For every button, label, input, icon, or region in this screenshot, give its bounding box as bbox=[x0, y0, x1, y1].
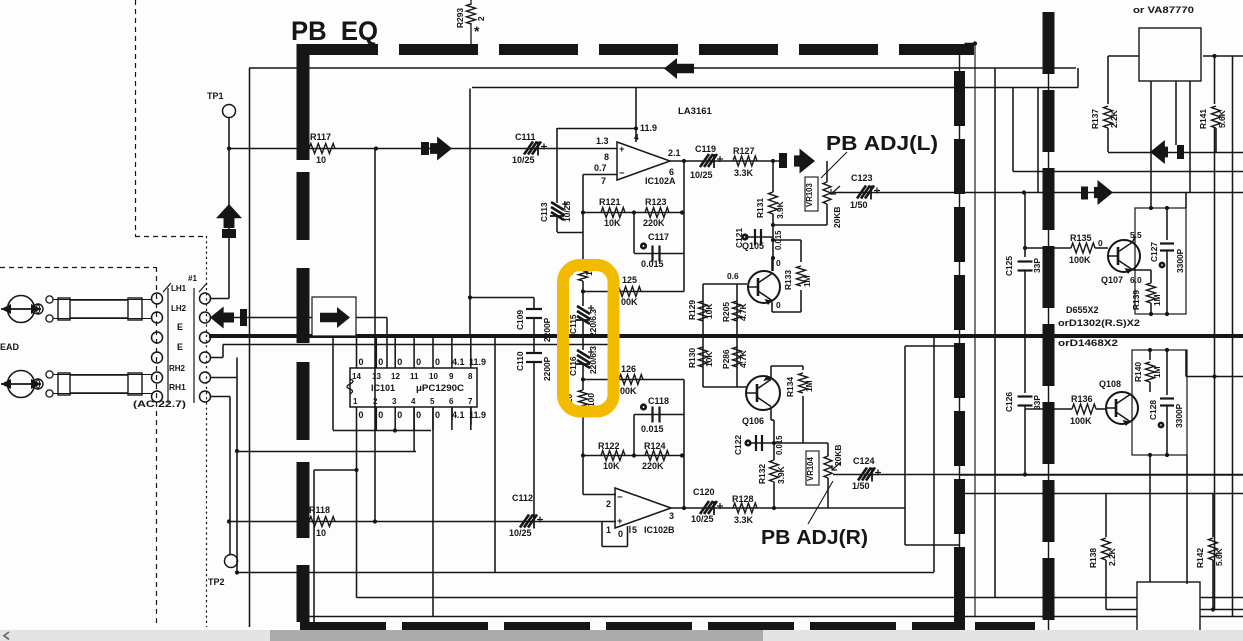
svg-text:LH2: LH2 bbox=[171, 304, 187, 313]
svg-text:R127: R127 bbox=[733, 146, 755, 156]
svg-text:Q107: Q107 bbox=[1101, 275, 1123, 285]
svg-text:0.015: 0.015 bbox=[775, 435, 784, 455]
svg-text:220K: 220K bbox=[643, 218, 665, 228]
svg-text:0: 0 bbox=[776, 300, 781, 310]
wire x634 up C118 bbox=[633, 415, 635, 456]
IC102B minus wire bbox=[583, 494, 616, 496]
svg-text:10: 10 bbox=[316, 528, 326, 538]
svg-text:3: 3 bbox=[669, 511, 674, 521]
resistor R117 bbox=[309, 144, 335, 154]
node dot R117 line bbox=[374, 146, 378, 150]
svg-text:R293: R293 bbox=[455, 8, 465, 28]
svg-text:C111: C111 bbox=[515, 132, 536, 142]
op-amp U IC102A bbox=[617, 142, 670, 180]
wire output node B x684 bbox=[683, 380, 685, 509]
transistor Q106 bbox=[746, 376, 780, 410]
svg-text:1: 1 bbox=[353, 397, 358, 406]
wire x333 bbox=[332, 338, 334, 430]
wire LH2 row y317 bbox=[211, 317, 387, 319]
capacitor C110 bbox=[533, 336, 535, 352]
capacitor C120 bbox=[700, 501, 717, 514]
IC box bottom bbox=[1137, 582, 1200, 641]
svg-text:11.9: 11.9 bbox=[469, 357, 486, 367]
wire Q106 collector down bbox=[770, 407, 772, 420]
svg-text:6: 6 bbox=[449, 397, 454, 406]
svg-text:R133: R133 bbox=[783, 270, 793, 290]
svg-text:RH1: RH1 bbox=[169, 382, 186, 392]
svg-text:33P: 33P bbox=[1032, 258, 1042, 273]
wire left boundary x249 bbox=[249, 68, 251, 627]
tape head L bbox=[8, 296, 35, 323]
svg-text:PB EQ: PB EQ bbox=[291, 16, 378, 46]
wire Q105 emitter bbox=[771, 302, 773, 312]
svg-text:TP1: TP1 bbox=[207, 91, 224, 101]
highlight ring bbox=[563, 265, 614, 412]
wire Q108 down bbox=[1149, 455, 1151, 582]
svg-text:C127: C127 bbox=[1149, 242, 1159, 262]
svg-text:4.1: 4.1 bbox=[452, 357, 465, 367]
svg-text:100K: 100K bbox=[1069, 255, 1091, 265]
svg-text:R118: R118 bbox=[309, 505, 330, 515]
svg-text:VR104: VR104 bbox=[806, 456, 815, 481]
svg-text:R121: R121 bbox=[599, 197, 621, 207]
capacitor C111 bbox=[524, 142, 541, 155]
svg-text:C109: C109 bbox=[515, 310, 525, 330]
svg-text:1M: 1M bbox=[1152, 294, 1162, 306]
svg-text:1.3: 1.3 bbox=[596, 136, 609, 146]
resistor R126 bbox=[619, 375, 643, 385]
svg-text:R142: R142 bbox=[1195, 548, 1205, 568]
svg-text:R135: R135 bbox=[1070, 233, 1092, 243]
svg-text:R122: R122 bbox=[598, 441, 620, 451]
svg-text:220/6.3: 220/6.3 bbox=[588, 346, 598, 374]
svg-text:C117: C117 bbox=[648, 232, 669, 242]
svg-text:00K: 00K bbox=[621, 297, 638, 307]
capacitor C128 bbox=[1166, 350, 1168, 395]
Q108 cell frame bbox=[1132, 350, 1187, 455]
svg-text:C123: C123 bbox=[851, 173, 873, 183]
capacitor C123 bbox=[857, 186, 874, 199]
svg-text:0.015: 0.015 bbox=[641, 259, 664, 269]
op-amp U IC102B bbox=[615, 488, 671, 528]
main signal bus bbox=[209, 334, 1243, 338]
svg-text:4: 4 bbox=[411, 397, 416, 406]
capacitor C109 bbox=[526, 308, 542, 310]
wire E2 row bbox=[211, 357, 223, 359]
capacitor C119 bbox=[700, 154, 717, 167]
wire return line y68 bbox=[249, 67, 1076, 69]
dashed line x156 bbox=[156, 267, 158, 627]
wire y475 right bbox=[960, 474, 1243, 476]
capacitor C116 bbox=[582, 336, 584, 350]
pot VR104 bbox=[806, 451, 819, 485]
dashed line y267 bbox=[0, 267, 156, 269]
svg-text:or VA87770: or VA87770 bbox=[1133, 5, 1194, 15]
VR104 callout bbox=[808, 481, 833, 524]
svg-text:0: 0 bbox=[435, 410, 440, 420]
wire inner bottom y572 bbox=[237, 572, 934, 574]
svg-text:2.2K: 2.2K bbox=[1109, 110, 1119, 128]
svg-text:PB ADJ(L): PB ADJ(L) bbox=[826, 133, 938, 155]
svg-text:0: 0 bbox=[776, 258, 781, 268]
svg-text:3300P: 3300P bbox=[1174, 403, 1184, 428]
svg-text:0: 0 bbox=[378, 410, 383, 420]
svg-text:#1: #1 bbox=[188, 274, 197, 283]
connector housing bbox=[152, 293, 163, 304]
resistor R137 bbox=[1104, 106, 1113, 128]
wire rail y88 bbox=[472, 87, 1078, 89]
svg-text:5: 5 bbox=[430, 397, 435, 406]
svg-text:00K: 00K bbox=[620, 386, 637, 396]
shield pass box bbox=[312, 297, 356, 336]
svg-text:R139: R139 bbox=[1131, 290, 1141, 310]
svg-text:3.3K: 3.3K bbox=[734, 515, 754, 525]
svg-text:orD1302(R.S)X2: orD1302(R.S)X2 bbox=[1058, 318, 1140, 328]
svg-text:1/50: 1/50 bbox=[852, 481, 870, 491]
wire bus lower y344 bbox=[223, 344, 612, 346]
svg-text:R132: R132 bbox=[757, 464, 767, 484]
svg-text:220/6.3: 220/6.3 bbox=[588, 309, 598, 337]
resistor R136 bbox=[1072, 404, 1096, 414]
svg-text:33P: 33P bbox=[1032, 395, 1042, 410]
wire x314 bbox=[313, 470, 315, 627]
PB EQ shield bottom dashed bar bbox=[300, 622, 965, 632]
svg-text:13: 13 bbox=[372, 372, 381, 381]
svg-text:3.9K: 3.9K bbox=[775, 201, 785, 219]
svg-text:1M: 1M bbox=[804, 380, 814, 392]
wire PB ADJ L row y192 bbox=[832, 192, 1243, 194]
svg-text:(AC 22.7): (AC 22.7) bbox=[133, 399, 186, 409]
svg-text:+: + bbox=[617, 516, 623, 527]
svg-text:220K: 220K bbox=[642, 461, 664, 471]
svg-text:*: * bbox=[474, 23, 480, 39]
resistor R138 bbox=[1105, 494, 1107, 538]
svg-text:7: 7 bbox=[468, 397, 473, 406]
svg-text:2: 2 bbox=[476, 16, 486, 21]
resistor R127 bbox=[733, 156, 757, 166]
IC box VA87770 bbox=[1139, 28, 1201, 81]
svg-text:10/25: 10/25 bbox=[509, 528, 532, 538]
svg-text:C122: C122 bbox=[733, 435, 743, 455]
svg-text:8: 8 bbox=[468, 372, 473, 381]
wire R126 row y379 bbox=[583, 379, 684, 381]
wire y152 row bbox=[1108, 152, 1243, 154]
svg-text:10/25: 10/25 bbox=[691, 514, 714, 524]
wire x1013 corner bbox=[1012, 88, 1014, 172]
capacitor C112 bbox=[520, 515, 537, 528]
svg-text:10K: 10K bbox=[604, 218, 621, 228]
wire x1214 down bbox=[1214, 128, 1216, 610]
wire box left R137 bbox=[1108, 55, 1139, 57]
capacitor C125 bbox=[1024, 193, 1026, 258]
svg-text:12: 12 bbox=[391, 372, 400, 381]
svg-text:0: 0 bbox=[397, 357, 402, 367]
svg-text:0: 0 bbox=[397, 410, 402, 420]
resistor R205 bbox=[733, 301, 742, 321]
wire x583 down to minus B bbox=[582, 456, 584, 495]
capacitor C117 bbox=[640, 242, 647, 249]
scrollbar track bbox=[0, 630, 1243, 641]
wire y128 bias bbox=[557, 128, 636, 130]
svg-text:R205: R205 bbox=[721, 302, 731, 322]
svg-text:0: 0 bbox=[435, 357, 440, 367]
IC IC101 body bbox=[350, 368, 477, 407]
svg-text:20KB: 20KB bbox=[833, 445, 843, 466]
wire x471 down bbox=[470, 407, 472, 425]
svg-text:R140: R140 bbox=[1133, 362, 1143, 382]
wire x433 down bbox=[432, 407, 434, 616]
svg-text:0: 0 bbox=[618, 529, 623, 539]
arrow PB out L bbox=[779, 153, 787, 168]
svg-text:3: 3 bbox=[392, 397, 397, 406]
svg-text:orD1468X2: orD1468X2 bbox=[1058, 338, 1118, 348]
svg-text:11.9: 11.9 bbox=[640, 123, 657, 133]
svg-text:6.0: 6.0 bbox=[1130, 275, 1142, 285]
wire box top right bbox=[1203, 55, 1243, 57]
wire x452 down bbox=[451, 407, 453, 420]
wire Q105 base row bbox=[703, 283, 747, 285]
svg-text:0: 0 bbox=[1098, 238, 1103, 248]
svg-text:R130: R130 bbox=[687, 348, 697, 368]
svg-text:LA3161: LA3161 bbox=[678, 106, 713, 117]
wire pin1 column down bbox=[356, 431, 358, 598]
wire R121 row y212 bbox=[583, 212, 684, 214]
svg-text:8: 8 bbox=[604, 152, 609, 162]
svg-text:0: 0 bbox=[359, 410, 364, 420]
capacitor C115 bbox=[582, 292, 584, 307]
wire vertical x1232 bbox=[1232, 56, 1234, 617]
arrow into PB EQ bbox=[320, 307, 350, 328]
svg-text:Q105: Q105 bbox=[742, 241, 764, 251]
svg-text:E: E bbox=[177, 322, 183, 332]
wire boundary x934 bbox=[933, 336, 935, 572]
svg-text:PB ADJ(R): PB ADJ(R) bbox=[761, 527, 868, 549]
wire bottom rail y597 bbox=[357, 597, 1243, 599]
svg-text:126: 126 bbox=[621, 364, 636, 374]
svg-text:0: 0 bbox=[359, 357, 364, 367]
resistor R206 bbox=[733, 347, 742, 367]
wire x634 down bbox=[633, 213, 635, 254]
svg-text:R134: R134 bbox=[785, 377, 795, 397]
IC102A minus input wire bbox=[583, 174, 617, 176]
resistor R293 bbox=[470, 0, 472, 5]
wire output node x684 bbox=[683, 161, 685, 292]
resistor R125 bbox=[617, 287, 641, 297]
wire Q107 collector bbox=[1132, 237, 1135, 243]
svg-text:7: 7 bbox=[601, 176, 606, 186]
resistor R118 bbox=[309, 517, 335, 527]
svg-text:C126: C126 bbox=[1004, 392, 1014, 412]
wire C117 row bbox=[634, 253, 684, 255]
resistor R122 bbox=[601, 451, 625, 461]
svg-text:−: − bbox=[617, 492, 623, 503]
svg-text:10/25: 10/25 bbox=[690, 170, 713, 180]
dashed line y236 bbox=[135, 236, 206, 238]
resistor R141 bbox=[1214, 56, 1216, 104]
svg-text:Q108: Q108 bbox=[1099, 379, 1121, 389]
PB EQ shield top dashed bar bbox=[299, 44, 974, 55]
wire box verticals bbox=[1150, 81, 1152, 208]
svg-text:μPC1290C: μPC1290C bbox=[416, 383, 465, 393]
resistor R139 bbox=[1150, 303, 1152, 314]
transistor Q107 bbox=[1108, 240, 1140, 272]
svg-text:1M: 1M bbox=[802, 275, 812, 287]
svg-text:3.9K: 3.9K bbox=[776, 466, 786, 484]
IC101 top pin stubs and numbers bbox=[356, 336, 358, 368]
svg-text:11: 11 bbox=[410, 372, 419, 381]
node below C116 bbox=[581, 377, 585, 381]
svg-text:RH2: RH2 bbox=[169, 364, 186, 373]
wire y493 right bbox=[962, 493, 1243, 495]
svg-text:D655X2: D655X2 bbox=[1066, 305, 1099, 315]
svg-text:3300P: 3300P bbox=[1175, 248, 1185, 273]
svg-text:C112: C112 bbox=[512, 493, 533, 503]
svg-text:C120: C120 bbox=[693, 487, 715, 497]
svg-text:LH1: LH1 bbox=[171, 284, 187, 293]
wire R122 row y455 bbox=[583, 455, 684, 457]
resistor R133 bbox=[800, 240, 802, 262]
bus node C115 bbox=[581, 334, 585, 338]
svg-text:R137: R137 bbox=[1090, 109, 1100, 129]
svg-text:0: 0 bbox=[416, 410, 421, 420]
svg-text:IC102B: IC102B bbox=[644, 525, 675, 535]
svg-text:20KB: 20KB bbox=[832, 207, 842, 228]
PB EQ shield left dashed bar bbox=[297, 44, 310, 160]
wire C118 row bbox=[634, 414, 684, 416]
resistor R124 bbox=[645, 451, 669, 461]
svg-text:9: 9 bbox=[449, 372, 454, 381]
svg-text:10: 10 bbox=[429, 372, 438, 381]
wire Q106 emitter top bbox=[770, 366, 772, 379]
wire RH2 row bbox=[211, 377, 237, 379]
second stage shield bottom bar piece bbox=[975, 622, 1035, 632]
svg-text:Q106: Q106 bbox=[742, 416, 764, 426]
second stage shield left dashed bar bbox=[1048, 12, 1050, 637]
svg-text:C128: C128 bbox=[1148, 400, 1158, 420]
wire R117 row y148 bbox=[229, 148, 617, 150]
wire y232 bbox=[557, 232, 583, 234]
resistor R142 bbox=[1212, 494, 1214, 538]
svg-text:C115: C115 bbox=[568, 314, 578, 334]
wire x583 feedback bbox=[582, 233, 584, 261]
wire R129 top bbox=[702, 292, 704, 337]
svg-text:1: 1 bbox=[606, 525, 611, 535]
svg-text:1/50: 1/50 bbox=[850, 200, 868, 210]
svg-text:0: 0 bbox=[416, 357, 421, 367]
VR103 callout bbox=[821, 152, 847, 178]
wire y451 routing bbox=[237, 451, 416, 453]
svg-text:R129: R129 bbox=[687, 300, 697, 320]
svg-text:E: E bbox=[177, 342, 183, 352]
resistor R121 bbox=[601, 208, 625, 218]
svg-text:R131: R131 bbox=[755, 198, 765, 218]
wire RH1 row bbox=[211, 396, 230, 398]
wire Q105 collector bbox=[771, 258, 773, 271]
arrow on R117 line bbox=[421, 142, 429, 155]
wire output row y508 bbox=[671, 507, 905, 509]
svg-text:C118: C118 bbox=[648, 396, 669, 406]
IC102A pin4 rail bbox=[635, 88, 637, 142]
svg-text:2.1: 2.1 bbox=[668, 148, 681, 158]
svg-text:C119: C119 bbox=[695, 144, 716, 154]
svg-text:0.015: 0.015 bbox=[641, 424, 664, 434]
arrow into stage2 bbox=[1081, 187, 1088, 200]
svg-text:10/25: 10/25 bbox=[562, 201, 572, 222]
svg-text:2200P: 2200P bbox=[542, 356, 552, 381]
scrollbar left chevron bbox=[4, 632, 9, 639]
svg-text:10/25: 10/25 bbox=[512, 155, 535, 165]
wire y376 right bbox=[1186, 376, 1243, 378]
PB EQ shield right dashed bar bbox=[959, 52, 961, 629]
svg-text:TP2: TP2 bbox=[208, 577, 225, 587]
svg-text:10K: 10K bbox=[704, 352, 714, 367]
wire Q106 base row bbox=[703, 386, 746, 388]
svg-text:R141: R141 bbox=[1198, 109, 1208, 129]
svg-text:R123: R123 bbox=[645, 197, 667, 207]
svg-text:14: 14 bbox=[352, 372, 361, 381]
svg-text:10K: 10K bbox=[603, 461, 620, 471]
wire output row y161 bbox=[670, 160, 780, 162]
wire x387 down bbox=[386, 318, 388, 369]
svg-text:4.7K: 4.7K bbox=[738, 350, 748, 368]
capacitor C126 bbox=[1018, 395, 1033, 397]
svg-text:4.1: 4.1 bbox=[452, 410, 465, 420]
wire x237 down bbox=[236, 358, 238, 573]
svg-text:C116: C116 bbox=[568, 356, 578, 376]
svg-text:0.6: 0.6 bbox=[727, 271, 739, 281]
svg-text:0.7: 0.7 bbox=[594, 163, 607, 173]
resistor R131 bbox=[772, 161, 774, 192]
resistor R134 bbox=[802, 366, 804, 370]
wire R118 row y521 bbox=[229, 521, 608, 523]
wire x1186 stub bbox=[1185, 350, 1187, 377]
wire pin routing y430 bbox=[333, 430, 431, 432]
resistor R140 bbox=[1149, 350, 1151, 360]
svg-text:1M: 1M bbox=[1152, 366, 1162, 378]
svg-text:R128: R128 bbox=[732, 494, 754, 504]
wire C122 row y443 bbox=[748, 442, 828, 444]
resistor R128 bbox=[733, 503, 757, 513]
resistor R119 bbox=[582, 260, 584, 263]
wire R130 col bbox=[702, 336, 704, 387]
svg-text:4: 4 bbox=[634, 132, 639, 142]
svg-text:C125: C125 bbox=[1004, 256, 1014, 276]
capacitor C122 bbox=[744, 439, 751, 446]
svg-text:R124: R124 bbox=[644, 441, 666, 451]
capacitor C124 bbox=[858, 468, 875, 481]
wire x905 loop bbox=[904, 346, 906, 545]
svg-text:125: 125 bbox=[622, 275, 637, 285]
svg-text:VR103: VR103 bbox=[805, 182, 814, 207]
svg-text:0: 0 bbox=[378, 357, 383, 367]
resistor R130 bbox=[699, 347, 708, 367]
svg-text:C110: C110 bbox=[515, 351, 525, 371]
svg-text:10K: 10K bbox=[704, 304, 714, 319]
arrow into TP1 line bbox=[216, 204, 242, 228]
svg-text:C113: C113 bbox=[539, 202, 549, 222]
transistor Q105 bbox=[748, 271, 780, 303]
wire x495 down bbox=[494, 336, 496, 573]
resistor R120 bbox=[582, 380, 584, 391]
svg-text:5.6K: 5.6K bbox=[1217, 110, 1227, 128]
svg-text:R138: R138 bbox=[1088, 548, 1098, 568]
svg-text:3.3K: 3.3K bbox=[734, 168, 754, 178]
arrow left stage2 bbox=[1150, 140, 1168, 164]
capacitor C113 bbox=[556, 128, 558, 203]
capacitor C118 bbox=[640, 403, 647, 410]
resistor R123 bbox=[645, 208, 669, 218]
wire R125 row y291 bbox=[583, 291, 684, 293]
